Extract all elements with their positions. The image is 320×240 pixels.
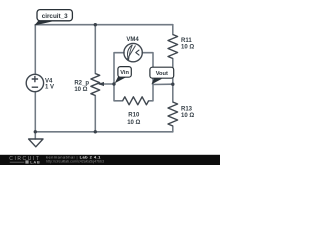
CircuitLab logo — [9, 156, 40, 165]
node flag circuit_3 — [34, 10, 72, 26]
node junction Vin — [112, 82, 115, 85]
resistor R10 — [123, 97, 149, 105]
label V4 value — [45, 79, 54, 91]
wire ground drop — [34, 132, 36, 139]
svg-text:circuit_3: circuit_3 — [42, 13, 68, 20]
wiper arrow of R2_p — [98, 82, 104, 86]
wire bottom horizontal net — [35, 131, 173, 133]
wire right rail top segment — [172, 25, 174, 35]
node flag Vout — [150, 67, 174, 84]
label R2_p value — [74, 81, 89, 93]
svg-text:http://circuitlab.com/c42aKa5q: http://circuitlab.com/c42aKa5q47bb3 — [46, 160, 104, 164]
wire VM4 left terminal — [114, 53, 124, 84]
svg-text:R11: R11 — [181, 38, 192, 44]
wire V4 bottom lead — [34, 92, 36, 132]
wire R10 right leads — [149, 85, 153, 101]
resistor R11 — [168, 35, 178, 59]
resistor R13 — [168, 102, 178, 126]
svg-text:R13: R13 — [181, 106, 193, 112]
svg-text:1 V: 1 V — [45, 84, 54, 90]
wire right rail bottom segment — [172, 126, 174, 132]
svg-text:R2_p: R2_p — [74, 81, 89, 87]
label R13 value — [181, 106, 194, 118]
node flag Vin — [115, 67, 132, 84]
watermark bar — [0, 155, 220, 165]
wire top horizontal net — [35, 24, 173, 26]
resistor R2_p (potentiometer) — [91, 74, 100, 96]
svg-text:10 Ω: 10 Ω — [181, 45, 194, 51]
wire R2_p branch bottom lead — [94, 96, 96, 132]
svg-text:Vin: Vin — [120, 70, 129, 76]
voltage source V4 — [26, 74, 43, 91]
node junction ground — [34, 130, 37, 133]
wire wiper to Vin node — [100, 83, 115, 85]
node junction top R2_p — [94, 23, 97, 26]
wire right rail middle segment — [172, 59, 174, 103]
wire R10 left leads — [114, 84, 123, 101]
label R10 value — [127, 113, 140, 126]
svg-text:R10: R10 — [128, 113, 140, 119]
voltmeter VM4 — [124, 43, 142, 61]
svg-text:VM4: VM4 — [126, 37, 139, 43]
meter pointer glyph — [136, 50, 139, 55]
ground — [29, 139, 43, 147]
node junction Vout rail — [171, 83, 174, 86]
label R11 value — [181, 38, 194, 51]
node junction bottom R2_p — [94, 130, 97, 133]
svg-text:10 Ω: 10 Ω — [181, 113, 194, 119]
wire R2_p branch top lead — [94, 25, 96, 74]
wire Vout node to right rail — [153, 83, 173, 85]
wire VM4 right terminal — [142, 53, 153, 85]
svg-text:10 Ω: 10 Ω — [74, 87, 87, 93]
svg-text:LAB: LAB — [30, 160, 40, 165]
wire left rail V4 top lead — [34, 25, 36, 75]
svg-text:Vout: Vout — [156, 71, 168, 77]
svg-text:10 Ω: 10 Ω — [127, 120, 140, 126]
